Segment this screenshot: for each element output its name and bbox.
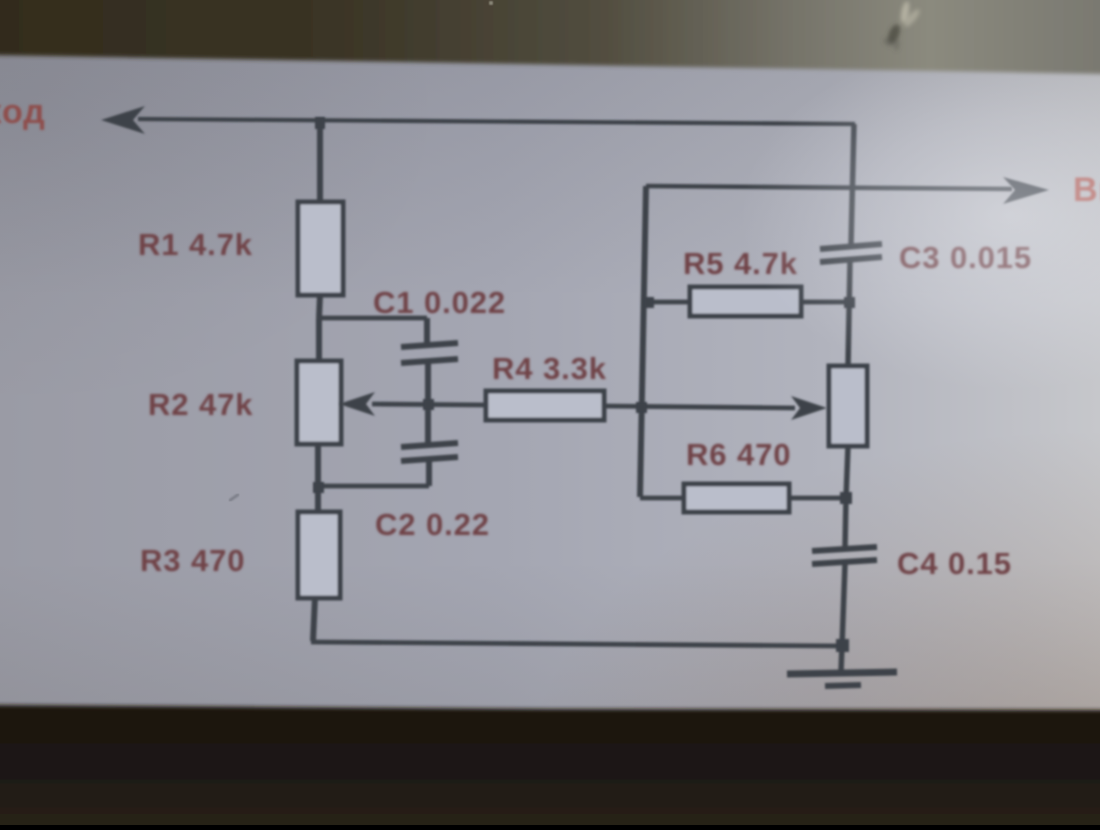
svg-text:R6 470: R6 470 bbox=[686, 437, 791, 472]
svg-text:ход: ход bbox=[0, 93, 46, 131]
svg-text:R3 470: R3 470 bbox=[140, 543, 245, 578]
svg-text:C4 0.15: C4 0.15 bbox=[897, 546, 1012, 581]
svg-text:R4 3.3k: R4 3.3k bbox=[492, 351, 607, 386]
svg-text:R1 4.7k: R1 4.7k bbox=[138, 227, 253, 262]
svg-text:R2 47k: R2 47k bbox=[148, 387, 253, 422]
svg-text:C2 0.22: C2 0.22 bbox=[375, 507, 490, 542]
svg-text:C1 0.022: C1 0.022 bbox=[373, 285, 506, 320]
